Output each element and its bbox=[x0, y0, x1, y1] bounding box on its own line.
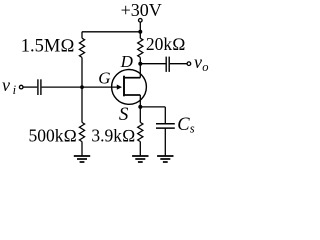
wire C1 to gate bbox=[42, 86, 118, 88]
junction drain node bbox=[138, 62, 142, 66]
capacitor Cs (bypass) bbox=[156, 124, 175, 128]
wire source bar down to source node bbox=[139, 95, 141, 107]
wire drain bar up to drain node bbox=[139, 64, 141, 78]
wire drain node to R3 bbox=[139, 57, 141, 63]
wire R1 to gate node bbox=[81, 57, 83, 87]
svg-text:+30V: +30V bbox=[121, 0, 162, 20]
wire down to Cs top plate bbox=[164, 107, 166, 123]
input terminal circle bbox=[19, 85, 23, 89]
wire source node to Cs bbox=[140, 106, 165, 108]
svg-text:s: s bbox=[190, 122, 195, 136]
resistor 500kohm bbox=[79, 122, 84, 141]
svg-text:S: S bbox=[119, 104, 129, 125]
gate arrow of JFET bbox=[117, 85, 122, 90]
svg-text:v: v bbox=[2, 75, 10, 95]
ground (bypass capacitor) bbox=[157, 156, 173, 162]
wire C2 to output terminal bbox=[170, 63, 187, 65]
transistor Q1 JFET circle bbox=[112, 70, 147, 105]
wire input terminal to C1 bbox=[23, 86, 37, 88]
junction source node bbox=[138, 105, 142, 109]
junction VDD node bbox=[138, 30, 142, 34]
wire Cs bottom plate to ground bbox=[164, 129, 166, 156]
svg-text:G: G bbox=[98, 68, 110, 87]
capacitor C1 (input coupling) bbox=[38, 79, 41, 95]
svg-text:1.5MΩ: 1.5MΩ bbox=[21, 37, 75, 57]
resistor 1.5Mohm bbox=[79, 38, 84, 57]
capacitor C2 (output coupling) bbox=[166, 57, 169, 72]
wire top rail to R1 bbox=[81, 32, 83, 38]
wire VDD node to R3 bbox=[139, 32, 141, 38]
svg-text:3.9kΩ: 3.9kΩ bbox=[91, 126, 135, 146]
svg-text:i: i bbox=[13, 83, 17, 97]
svg-text:C: C bbox=[177, 115, 190, 135]
resistor 20kohm bbox=[138, 38, 143, 57]
wire top rail bbox=[82, 31, 140, 33]
wire gate node to R2 bbox=[81, 87, 83, 122]
resistor 3.9kohm bbox=[138, 122, 143, 141]
svg-text:20kΩ: 20kΩ bbox=[146, 34, 186, 54]
wire supply terminal to VDD node bbox=[139, 22, 141, 32]
ground (source resistor) bbox=[132, 156, 148, 162]
svg-text:v: v bbox=[194, 52, 202, 72]
svg-text:500kΩ: 500kΩ bbox=[29, 126, 77, 146]
wire R2 to ground bbox=[81, 142, 83, 156]
source bar of JFET bbox=[125, 94, 140, 96]
wire drain node to C2 bbox=[140, 63, 165, 65]
channel bar of JFET bbox=[123, 76, 125, 97]
ground (input side) bbox=[74, 156, 90, 162]
supply terminal circle bbox=[139, 19, 143, 23]
svg-text:o: o bbox=[202, 60, 208, 74]
junction gate node bbox=[80, 85, 84, 89]
wire R4 to ground bbox=[139, 142, 141, 156]
svg-text:D: D bbox=[120, 52, 134, 71]
drain bar of JFET bbox=[125, 77, 140, 79]
wire source node to R4 bbox=[139, 107, 141, 123]
output terminal circle bbox=[187, 62, 191, 66]
